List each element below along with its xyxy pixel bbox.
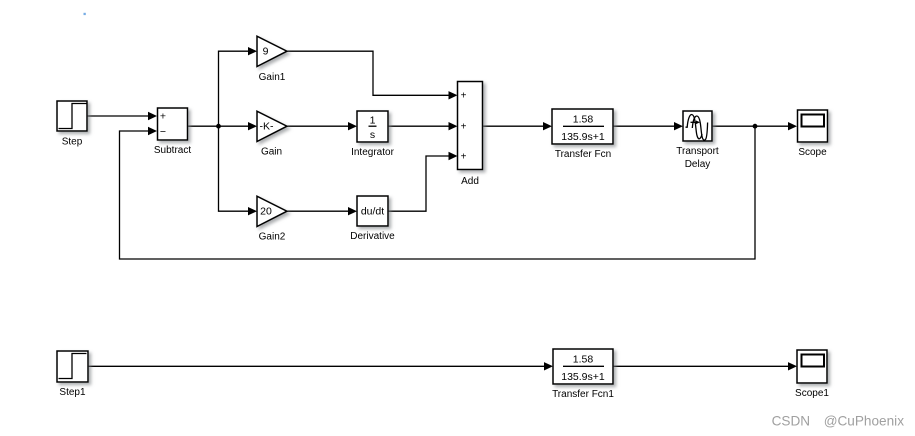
svg-text:CSDN @CuPhoenix: CSDN @CuPhoenix — [772, 413, 905, 428]
svg-text:−: − — [160, 126, 166, 138]
svg-text:1: 1 — [370, 115, 376, 127]
svg-text:Subtract: Subtract — [154, 145, 191, 156]
svg-text:-K-: -K- — [260, 121, 275, 133]
svg-text:+: + — [461, 90, 467, 101]
svg-text:135.9s+1: 135.9s+1 — [561, 371, 605, 383]
svg-text:1.58: 1.58 — [573, 114, 594, 126]
svg-text:s: s — [370, 129, 375, 141]
svg-text:Derivative: Derivative — [350, 231, 395, 242]
svg-text:Integrator: Integrator — [351, 147, 394, 158]
svg-text:20: 20 — [260, 206, 272, 218]
svg-text:Step: Step — [62, 137, 83, 148]
svg-text:+: + — [461, 151, 467, 162]
svg-text:Step1: Step1 — [59, 387, 86, 398]
svg-text:Transfer Fcn: Transfer Fcn — [555, 149, 611, 160]
svg-text:du/dt: du/dt — [361, 206, 384, 218]
svg-text:135.9s+1: 135.9s+1 — [561, 131, 605, 143]
svg-text:Scope1: Scope1 — [795, 388, 829, 399]
svg-text:Gain1: Gain1 — [259, 72, 286, 83]
svg-text:Add: Add — [461, 176, 479, 187]
svg-text:Scope: Scope — [798, 147, 827, 158]
svg-text:+: + — [160, 111, 166, 123]
svg-text:Gain2: Gain2 — [259, 232, 286, 243]
svg-text:+: + — [461, 121, 467, 132]
svg-text:1.58: 1.58 — [573, 354, 594, 366]
svg-text:Delay: Delay — [685, 159, 711, 170]
svg-text:9: 9 — [263, 46, 269, 58]
svg-text:Transfer Fcn1: Transfer Fcn1 — [552, 389, 614, 400]
svg-text:Transport: Transport — [676, 146, 719, 157]
svg-text:Gain: Gain — [261, 147, 282, 158]
